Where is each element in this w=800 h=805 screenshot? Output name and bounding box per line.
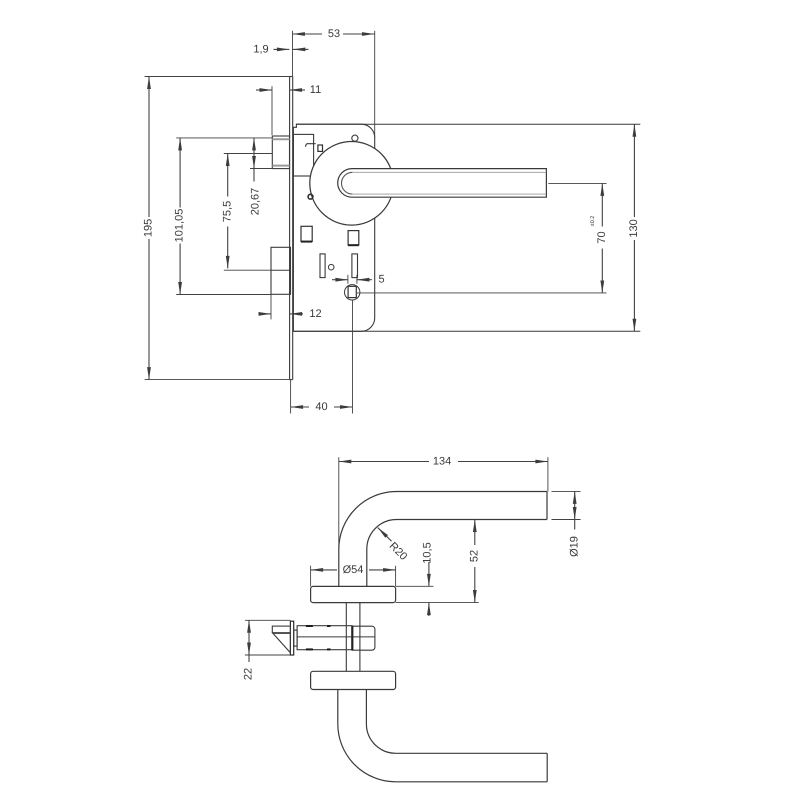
svg-text:40: 40: [315, 401, 327, 413]
svg-text:11: 11: [310, 84, 321, 96]
svg-text:20,67: 20,67: [249, 188, 261, 216]
svg-text:130: 130: [628, 219, 640, 237]
svg-text:134: 134: [433, 456, 451, 468]
svg-text:10,5: 10,5: [422, 542, 434, 563]
svg-text:22: 22: [243, 668, 255, 680]
svg-text:70: 70: [596, 231, 608, 243]
svg-text:75,5: 75,5: [221, 201, 233, 222]
svg-text:12: 12: [309, 308, 321, 320]
svg-text:52: 52: [468, 550, 480, 562]
svg-text:Ø19: Ø19: [568, 536, 580, 557]
svg-text:1,9: 1,9: [253, 43, 268, 55]
svg-text:Ø54: Ø54: [343, 564, 364, 576]
svg-text:195: 195: [143, 219, 155, 237]
svg-text:101,05: 101,05: [174, 209, 186, 243]
svg-text:53: 53: [328, 28, 340, 40]
svg-text:±0.2: ±0.2: [590, 216, 596, 227]
svg-text:5: 5: [378, 273, 384, 285]
